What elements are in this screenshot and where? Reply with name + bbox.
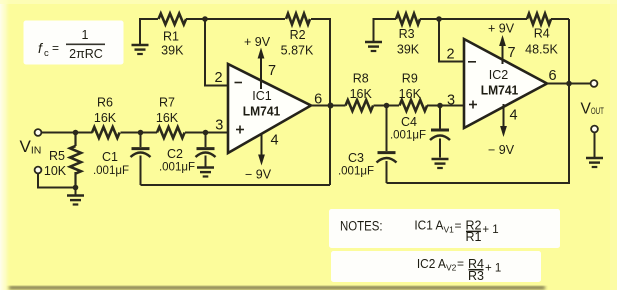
notes strip 1: IC1 gain formula [331,211,559,247]
wire: IC2 output to VOUT terminal [547,83,591,85]
svg-text:C2: C2 [167,147,183,161]
output return terminal [591,126,598,133]
wire: return terminal to ground [594,132,596,157]
svg-text:R1: R1 [163,29,179,43]
ground G5 (below C4) [432,159,449,168]
svg-text:10K: 10K [44,164,67,178]
svg-text:2πRC: 2πRC [69,47,103,61]
pin 7 supply arrow (+9V) IC2 [488,22,516,65]
wire: lower terminal to R5 bottom [38,173,76,187]
svg-text:R4: R4 [534,27,550,41]
ground G2 (left of R3) [365,19,396,51]
resistor R4 [527,14,551,25]
svg-text:V1: V1 [444,224,455,234]
svg-text:.001μF: .001μF [390,130,426,142]
svg-text:3: 3 [447,93,455,109]
resistor R2 [286,14,310,25]
op-amp IC2 LM741 [464,39,547,128]
svg-text:+ 9V: + 9V [244,35,271,49]
svg-text:R9: R9 [402,72,418,86]
resistor R5 (vertical) [70,133,81,188]
svg-text:IC2: IC2 [489,68,509,82]
pin 4 supply arrow (-9V) IC1 [245,133,279,182]
label R7 16K [156,95,179,125]
label R1 39K [161,29,184,57]
ground G6 (below VOUT return) [586,158,603,167]
wire: pin-2 drop from junction [205,19,229,86]
svg-text:5.87K: 5.87K [281,44,314,58]
svg-text:LM741: LM741 [243,104,281,119]
label C1 .001uF [93,150,129,177]
svg-text:16K: 16K [350,87,373,101]
node: R3/R4 junction [436,16,442,22]
label R5 10K [44,149,67,178]
label R3 39K [397,27,420,57]
svg-text:=: = [52,41,59,55]
svg-text:+ 9V: + 9V [488,22,515,36]
svg-text:IC1 A: IC1 A [414,219,444,233]
resistor R3 [396,14,420,25]
svg-text:2: 2 [446,47,454,63]
svg-text:R6: R6 [97,95,113,109]
node: C4 junction [437,103,443,109]
svg-text:2: 2 [214,70,222,86]
svg-text:V2: V2 [446,263,457,273]
wire: VIN line to R6 [41,132,92,134]
svg-text:R1: R1 [466,230,482,244]
svg-text:6: 6 [548,68,556,84]
ground G4 (below C2) [197,168,214,177]
cutoff frequency formula box [25,22,122,63]
wire: R8 to R9 [374,105,400,107]
svg-text:IC2 A: IC2 A [417,257,447,271]
svg-text:4: 4 [509,108,517,124]
svg-text:+ 1: + 1 [482,224,498,236]
svg-text:16K: 16K [399,87,422,101]
svg-text:NOTES:: NOTES: [340,219,383,234]
label R9 16K [399,72,422,102]
node: IC1 output junction [328,103,334,109]
svg-text:LM741: LM741 [481,83,519,98]
wire: stage2 feedback bottom [387,19,570,183]
output terminal VOUT [591,80,598,87]
node: C3 junction [384,103,390,109]
svg-text:48.5K: 48.5K [525,43,558,57]
wire: R6 to C1 node [121,132,158,134]
svg-text:=: = [455,218,462,232]
wire: junction to R2 [205,18,285,20]
capacitor C4 [430,106,450,158]
label C4 .001uF [390,115,426,142]
wire: R3 to R4 [420,18,527,20]
wire: R1 to feedback node [186,18,204,20]
label C3 .001uF [338,151,374,178]
resistor R7 [157,127,185,138]
svg-text:39K: 39K [161,44,184,58]
svg-text:4: 4 [270,133,278,149]
ground G1 (left of R1) [132,19,159,54]
capacitor C3 [377,106,397,184]
svg-text:7: 7 [507,45,515,61]
svg-text:7: 7 [268,63,276,79]
resistor R9 [400,100,428,111]
label C2 .001uF [159,147,195,174]
node: C2 junction [203,130,209,136]
svg-text:.001μF: .001μF [159,162,195,174]
wire: R7 to IC1 plus input [185,132,228,134]
label R6 16K [94,95,117,125]
svg-text:R3: R3 [468,269,484,283]
pin 4 supply arrow (-9V) IC2 [488,104,518,157]
pin 7 supply arrow (+9V) IC1 [244,35,276,89]
svg-text:1: 1 [82,28,89,42]
svg-text:C1: C1 [102,150,118,164]
node: R5 bottom [73,185,79,191]
svg-text:IC1: IC1 [252,89,272,103]
svg-text:R2: R2 [290,28,306,42]
node: C1 junction [138,130,144,136]
svg-text:3: 3 [215,118,223,134]
node: IC2 output junction [566,81,572,87]
svg-text:C4: C4 [401,115,417,129]
capacitor C1 [131,133,151,186]
input terminal VIN (upper) [35,129,42,136]
svg-text:R8: R8 [353,72,369,86]
svg-text:R3: R3 [399,27,415,41]
label R8 16K [350,72,373,102]
wire: pin-2 drop (IC2) [439,19,464,62]
svg-text:=: = [457,257,464,271]
ground G3 (below R5) [67,188,84,205]
label R4 48.5K [525,27,558,57]
svg-text:16K: 16K [156,111,179,125]
svg-text:− 9V: − 9V [488,143,515,157]
svg-text:C3: C3 [348,151,364,165]
wire: R9 to IC2 plus input [427,105,464,107]
svg-text:R5: R5 [49,149,65,163]
svg-text:.001μF: .001μF [338,166,374,178]
resistor R8 [346,100,374,111]
wire: R2 right end down to IC1 output node and to feedback bottom [311,19,330,185]
input terminal VIN return (lower) [35,167,42,174]
svg-text:− 9V: − 9V [245,168,272,182]
resistor R1 [159,14,187,25]
svg-text:R7: R7 [159,95,175,109]
svg-text:16K: 16K [94,111,117,125]
label R2 5.87K [281,28,314,58]
svg-text:.001μF: .001μF [93,165,129,177]
notes strip 2: IC2 gain formula [333,253,540,283]
wire: R4 to output vertical [551,18,569,20]
capacitor C2 [196,133,216,167]
resistor R6 [92,127,120,138]
op-amp IC1 LM741 [228,64,311,153]
wire: stage1 feedback bottom [141,184,331,186]
svg-text:39K: 39K [397,43,420,57]
node: R5 top [73,130,79,136]
node: R1/R2 junction [202,16,208,22]
svg-text:c: c [44,48,49,59]
svg-text:+ 1: + 1 [485,263,501,275]
wire: IC1 output to R8 [311,105,346,107]
